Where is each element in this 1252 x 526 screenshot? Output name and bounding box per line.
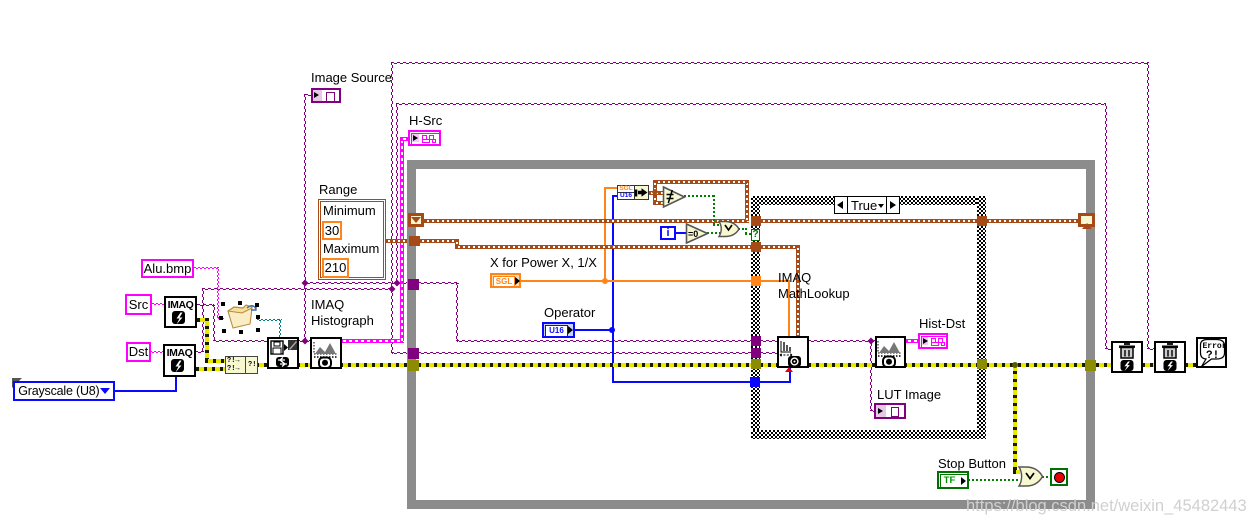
svg-text:?!: ?! — [1206, 350, 1219, 362]
svg-text:=0: =0 — [688, 229, 698, 239]
